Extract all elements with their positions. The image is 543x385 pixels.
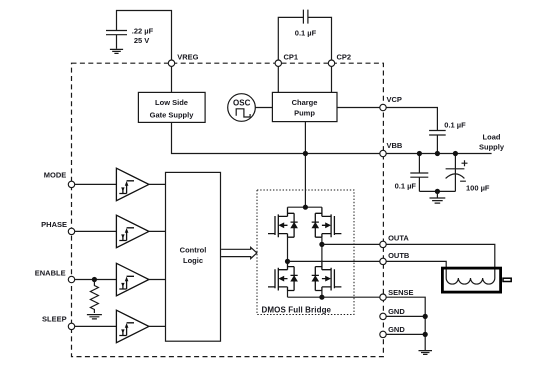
- junction OUTA: [319, 242, 324, 247]
- terminal OUTB: [380, 258, 386, 264]
- junction VBB rail / charge pump: [303, 151, 308, 156]
- buffer A3 (ENABLE): [116, 263, 148, 296]
- Charge Pump U2: [272, 92, 337, 121]
- wire: OSC to Charge Pump: [255, 107, 272, 109]
- svg-text:VREG: VREG: [177, 53, 198, 62]
- svg-text:25 V: 25 V: [134, 36, 149, 45]
- transistor Q1 (top-left DMOS with body diode): [268, 207, 298, 237]
- wire: CP1/CP2 into Charge Pump: [278, 63, 331, 92]
- svg-text:Gate Supply: Gate Supply: [150, 111, 195, 120]
- wire SLEEP: [72, 325, 117, 327]
- capacitor C2 0.1uF (CP1-CP2): [278, 17, 331, 63]
- svg-text:CP1: CP1: [284, 53, 299, 62]
- terminal PHASE: [68, 228, 74, 234]
- svg-text:Load: Load: [483, 133, 501, 142]
- junction bridge top: [303, 205, 308, 210]
- svg-text:OUTA: OUTA: [388, 234, 409, 243]
- svg-text:0.1 µF: 0.1 µF: [295, 29, 317, 38]
- capacitor C4 0.1uF (VBB-GND): [410, 154, 428, 192]
- junction ENABLE/resistor: [92, 277, 97, 282]
- bus arrow Control Logic to bridge: [221, 247, 257, 258]
- svg-text:ENABLE: ENABLE: [35, 268, 66, 277]
- svg-text:100 µF: 100 µF: [466, 183, 490, 192]
- junction GND1: [423, 314, 428, 319]
- Control Logic U3: [166, 172, 221, 341]
- terminal OUTA: [380, 241, 386, 247]
- terminal VBB: [380, 150, 386, 156]
- transistor Q3 (bottom-left DMOS with body diode): [268, 261, 298, 291]
- transistor Q4 (bottom-right DMOS with body diode): [312, 261, 342, 291]
- wire: VREG down through Low Side Gate Supply: [171, 63, 173, 92]
- wire: left chain to OUTB node: [287, 237, 289, 261]
- wire OUTA to load: [322, 244, 495, 278]
- svg-text:SLEEP: SLEEP: [42, 315, 67, 324]
- svg-text:DMOS Full Bridge: DMOS Full Bridge: [262, 305, 332, 314]
- svg-text:VCP: VCP: [387, 95, 402, 104]
- wire: right chain to OUTA node: [321, 237, 323, 260]
- resistor R1 pulldown: [90, 280, 98, 314]
- load box: [442, 268, 500, 292]
- svg-text:Control: Control: [180, 246, 207, 255]
- svg-text:Pump: Pump: [294, 109, 315, 118]
- wire: Charge Pump down to bridge: [304, 122, 306, 208]
- svg-text:Low Side: Low Side: [155, 98, 188, 107]
- wire GND1: [383, 315, 425, 317]
- svg-text:CP2: CP2: [337, 53, 352, 62]
- junction GND2: [423, 332, 428, 337]
- buffer outputs to Control Logic: [149, 184, 166, 326]
- svg-text:OSC: OSC: [233, 99, 251, 108]
- terminal GND2: [380, 331, 386, 337]
- wire: top-left cap to VREG: [117, 11, 172, 64]
- ground (C1): [110, 49, 123, 53]
- bridge bottom rail: [288, 296, 322, 298]
- bridge top rail: [288, 206, 322, 208]
- svg-text:0.1 µF: 0.1 µF: [444, 121, 466, 130]
- terminal VREG: [168, 60, 174, 66]
- IC boundary dashed box: [72, 63, 384, 356]
- wire: left chain lower to bottom rail: [287, 291, 289, 298]
- ground (load supply): [430, 198, 446, 203]
- buffer A1 (MODE): [116, 168, 148, 201]
- wire: VBB out to load supply: [383, 153, 492, 155]
- terminal SLEEP: [68, 323, 74, 329]
- wire GND2: [383, 333, 425, 335]
- wire ENABLE: [72, 279, 117, 281]
- ground (GND pins): [419, 351, 433, 355]
- terminal GND1: [380, 313, 386, 319]
- buffer A4 (SLEEP): [116, 310, 148, 343]
- wire: VCP out to cap: [383, 108, 437, 131]
- inductor coil: [446, 278, 495, 284]
- svg-text:Supply: Supply: [479, 142, 505, 151]
- capacitor C5 100uF electrolytic: [446, 154, 465, 192]
- Low Side Gate Supply U1: [138, 92, 205, 122]
- ground (R1): [87, 315, 102, 319]
- terminal CP1: [275, 60, 281, 66]
- svg-text:SENSE: SENSE: [388, 288, 413, 297]
- svg-text:PHASE: PHASE: [41, 220, 67, 229]
- oscillator OSC: [228, 94, 256, 122]
- svg-text:.22 µF: .22 µF: [132, 27, 154, 36]
- wire OUTB to load: [288, 261, 447, 278]
- DMOS Full Bridge dotted box: [257, 190, 354, 315]
- wire: right chain lower to bottom rail: [321, 291, 323, 298]
- terminal VCP: [380, 104, 386, 110]
- buffer A2 (PHASE): [116, 215, 148, 248]
- junction dots VBB rail: [417, 151, 422, 156]
- svg-text:VBB: VBB: [387, 141, 403, 150]
- svg-text:GND: GND: [388, 325, 405, 334]
- wire: Charge Pump to VCP: [337, 107, 383, 109]
- svg-text:GND: GND: [388, 307, 405, 316]
- wire PHASE: [72, 230, 117, 232]
- svg-text:MODE: MODE: [44, 171, 67, 180]
- svg-text:OUTB: OUTB: [388, 251, 410, 260]
- junction OUTB: [285, 259, 290, 264]
- capacitor C3 0.1uF (VCP-VBB): [429, 131, 446, 154]
- capacitor C1 .22uF plates: [106, 31, 127, 49]
- terminal ENABLE: [68, 276, 74, 282]
- terminal SENSE: [380, 294, 386, 300]
- load terminal stub: [503, 278, 511, 281]
- terminal MODE: [68, 181, 74, 187]
- svg-text:Logic: Logic: [183, 256, 203, 265]
- wire: caps to ground: [419, 190, 455, 192]
- svg-text:0.1 µF: 0.1 µF: [395, 181, 417, 190]
- wire MODE: [72, 183, 117, 185]
- terminal CP2: [328, 60, 334, 66]
- junction SENSE: [319, 295, 324, 300]
- transistor Q2 (top-right DMOS with body diode): [312, 207, 342, 237]
- wire SENSE to ground: [322, 297, 425, 350]
- svg-text:Charge: Charge: [292, 98, 318, 107]
